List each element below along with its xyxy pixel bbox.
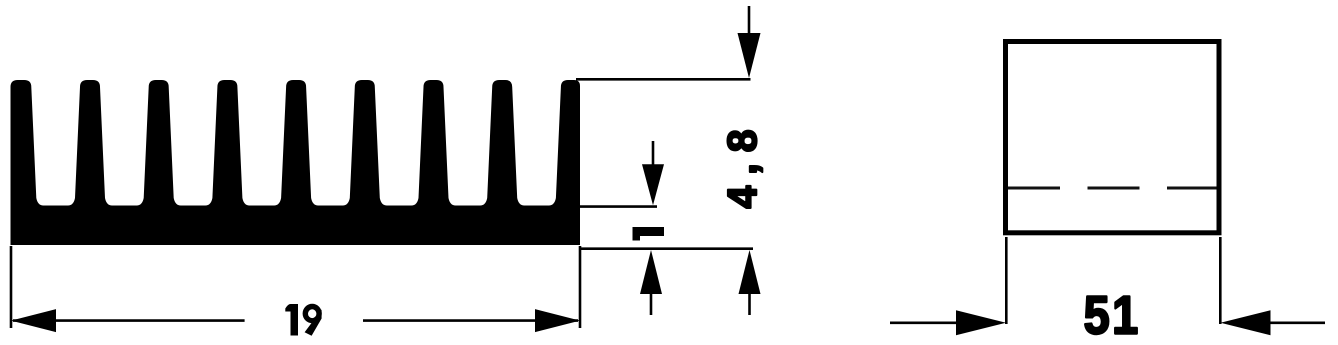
extension line left of 51 dim (1005, 237, 1008, 324)
top view outline square (1006, 42, 1220, 233)
label 1 (rotated, custom glyph) (633, 227, 665, 241)
heatsink profile silhouette (11, 80, 581, 245)
arrow up to base-bottom line (1 dim) (640, 250, 662, 294)
label 19: digit 1 (custom glyph) (285, 304, 298, 336)
dimension line 19 left segment with left arrowhead (13, 319, 245, 322)
arrow down to base-top line (652, 141, 655, 170)
extension line left of 19 dim (10, 246, 13, 328)
51 dim right arrow (outside, pointing left) (1266, 321, 1325, 324)
svg-text:4,8: 4,8 (719, 119, 765, 209)
extension line right of 19 dim (579, 246, 582, 328)
extension line base-bottom (4,8 / 1 dim bottom) (580, 247, 753, 250)
dimension line 19 right segment with right arrowhead (363, 319, 578, 322)
arrow down to fin-tip line (4,8 dim top) (748, 6, 751, 40)
svg-text:51: 51 (1084, 284, 1141, 345)
hidden/dashed line inside outline (1008, 187, 1217, 190)
label 19: digit 9 (custom glyph) (303, 304, 322, 324)
extension line right of 51 dim (1219, 237, 1222, 324)
51 dim left arrow (outside, pointing right) (890, 321, 960, 324)
extension line base-top (1 dim top) (580, 205, 657, 208)
arrow up to base-bottom line (4,8 dim) (739, 250, 761, 294)
extension line top (fin tip level) (576, 78, 751, 81)
